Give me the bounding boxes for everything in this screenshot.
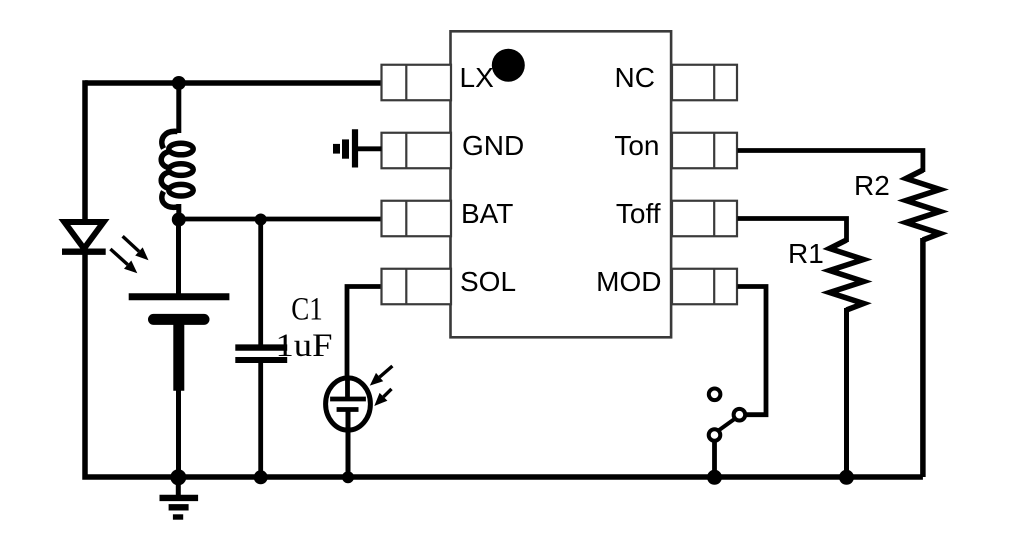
wire battery top lead <box>176 219 181 294</box>
node junction ground net at switch <box>707 470 722 485</box>
label R2 <box>854 170 890 201</box>
pin BAT box <box>382 201 452 237</box>
svg-text:SOL: SOL <box>460 266 516 297</box>
svg-text:LX: LX <box>460 62 495 93</box>
svg-text:R1: R1 <box>788 238 824 269</box>
pin LX box <box>382 65 452 101</box>
label C1 <box>291 292 323 328</box>
node junction ground net at C1 <box>254 470 268 484</box>
wire LED anode vertical <box>82 80 88 222</box>
wire R2 bottom to ground net <box>920 238 926 477</box>
wire capacitor C1 top lead <box>258 219 263 345</box>
label BAT <box>461 198 513 229</box>
svg-text:NC: NC <box>615 62 655 93</box>
svg-text:1uF: 1uF <box>276 328 333 364</box>
resistor R2 <box>906 170 940 240</box>
wire R1 bottom to ground net <box>844 308 849 477</box>
label R1 <box>788 238 824 269</box>
wire Toff to R1 <box>738 219 847 243</box>
node junction BAT net at C1 <box>255 214 267 226</box>
wire MOD to switch <box>738 287 767 415</box>
label LX <box>460 62 495 93</box>
label Toff <box>616 198 661 229</box>
svg-text:Ton: Ton <box>614 130 659 161</box>
node junction ground net at R1 <box>839 470 854 485</box>
svg-text:Toff: Toff <box>616 198 661 229</box>
ground symbol <box>160 477 199 517</box>
pin Toff box <box>672 201 737 237</box>
svg-text:GND: GND <box>462 130 524 161</box>
wire top net LX: from LED anode corner to LX pin <box>85 80 382 86</box>
pin MOD box <box>672 269 737 305</box>
label Ton <box>614 130 659 161</box>
wire battery bottom lead <box>176 390 181 477</box>
wire inductor bottom lead <box>176 204 181 219</box>
svg-text:MOD: MOD <box>596 266 661 297</box>
LED D1 <box>62 222 149 273</box>
label NC <box>615 62 655 93</box>
pin SOL box <box>382 269 452 305</box>
wire LED cathode vertical <box>85 253 923 477</box>
label 1uF <box>276 328 333 364</box>
pin GND box <box>382 133 452 169</box>
pin NC box <box>672 65 737 101</box>
capacitor C1 <box>235 348 287 360</box>
svg-text:BAT: BAT <box>461 198 513 229</box>
inductor L1 <box>161 131 193 207</box>
solar cell PV1 <box>326 366 393 477</box>
wire BAT net horizontal to BAT pin <box>179 217 382 222</box>
label MOD <box>596 266 661 297</box>
label SOL <box>460 266 516 297</box>
node junction ground net at solar cell <box>342 471 354 483</box>
pin Ton box <box>672 133 737 169</box>
node junction ground net at battery <box>170 469 186 485</box>
wire switch pole to ground net <box>712 441 717 478</box>
battery B1 <box>129 297 230 391</box>
resistor R1 <box>830 240 864 310</box>
wire inductor top lead <box>176 83 181 133</box>
wire Ton to R2 <box>738 151 923 173</box>
pin 1 marker dot <box>492 49 525 82</box>
node junction BAT net at inductor <box>172 213 186 227</box>
svg-text:R2: R2 <box>854 170 890 201</box>
IC U1 body <box>451 31 672 337</box>
svg-text:C1: C1 <box>291 292 323 328</box>
wire capacitor C1 bottom lead <box>258 362 263 477</box>
node junction top (inductor tap) <box>172 76 186 90</box>
wire SOL pin lead <box>347 287 382 381</box>
label GND <box>462 130 524 161</box>
switch S1 <box>709 389 746 441</box>
ground symbol at GND pin (rotated) <box>337 129 382 167</box>
